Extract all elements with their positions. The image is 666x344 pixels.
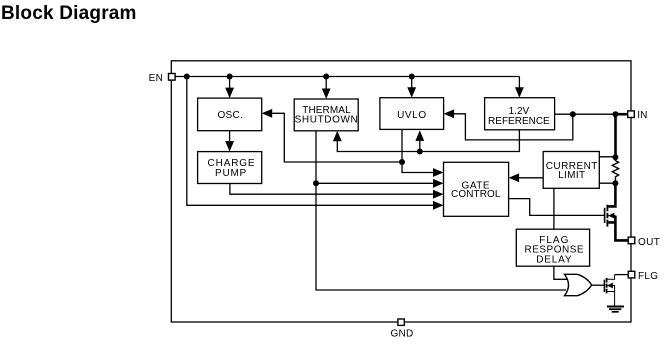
wire current limit to gate control	[510, 177, 543, 179]
svg-text:LIMIT: LIMIT	[558, 170, 585, 181]
svg-text:GND: GND	[390, 328, 413, 339]
svg-text:PUMP: PUMP	[215, 168, 247, 179]
node thermal shutdown junction	[313, 180, 319, 186]
wire charge pump to gate control	[230, 184, 442, 195]
wire resistor to pass transistor drain	[608, 183, 615, 206]
wire current limit sense top	[599, 156, 615, 158]
wire reference output rail to thermal shutdown	[337, 130, 519, 152]
svg-text:UVLO: UVLO	[397, 110, 427, 121]
wire EN rail to UVLO	[411, 77, 413, 97]
OR gate U1	[565, 274, 592, 295]
node resistor top	[612, 154, 618, 160]
block gate control	[444, 162, 509, 216]
wire EN rail	[175, 76, 519, 78]
wire EN rail to thermal shutdown	[325, 77, 327, 98]
wire UVLO output to OSC	[265, 113, 402, 162]
block thermal shutdown	[294, 99, 358, 131]
pin OUT	[628, 237, 660, 248]
transistor Q2 flag MOSFET	[604, 275, 614, 307]
wire flag transistor drain to FLG pin	[615, 274, 629, 276]
svg-text:REFERENCE: REFERENCE	[488, 116, 550, 127]
wire IN sense to UVLO	[446, 114, 573, 140]
node UVLO-OSC junction	[399, 159, 405, 165]
node reference rail junction	[417, 149, 423, 155]
svg-text:DELAY: DELAY	[536, 254, 572, 265]
pin EN	[149, 73, 176, 84]
svg-text:OUT: OUT	[638, 237, 660, 248]
node EN junction	[184, 74, 190, 80]
node UVLO branch	[409, 74, 415, 80]
svg-text:EN: EN	[149, 73, 164, 84]
wire UVLO to gate control	[402, 129, 442, 172]
wire reference to IN line	[554, 113, 616, 115]
svg-text:CONTROL: CONTROL	[451, 189, 501, 200]
ground	[607, 307, 624, 312]
transistor Q1 pass MOSFET	[605, 205, 616, 227]
pin FLG	[628, 271, 658, 282]
wire EN to gate control	[187, 77, 442, 206]
block flag response delay	[516, 229, 589, 266]
pin IN	[628, 110, 648, 121]
wire current limit to flag response delay	[553, 188, 555, 229]
wire thermal shutdown to OR gate and gate control	[316, 131, 566, 290]
wire EN rail to 1.2V reference	[518, 77, 520, 97]
wire reference rail arrow into UVLO bottom	[419, 132, 421, 152]
block UVLO	[380, 98, 444, 130]
wire OR gate output to flag transistor gate	[592, 284, 604, 286]
block OSC	[198, 98, 262, 131]
svg-text:FLG: FLG	[638, 271, 658, 282]
svg-text:OSC.: OSC.	[217, 110, 243, 121]
node IN line junction	[613, 111, 619, 117]
node IN-UVLO junction	[570, 111, 576, 117]
wire IN down to sense resistor	[614, 114, 617, 157]
resistor R1 sense	[612, 157, 618, 183]
wire IN pin thick	[616, 113, 629, 116]
block charge pump	[198, 152, 262, 184]
node OSC branch	[227, 74, 233, 80]
block current limit	[543, 152, 599, 189]
pin GND	[390, 319, 413, 339]
IC boundary box	[171, 61, 631, 322]
wire pass transistor source to OUT	[608, 216, 628, 241]
node resistor bottom	[612, 180, 618, 186]
node thermal branch	[323, 74, 329, 80]
svg-text:SHUTDOWN: SHUTDOWN	[295, 114, 359, 125]
svg-text:IN: IN	[637, 110, 647, 121]
svg-text:Block Diagram: Block Diagram	[1, 3, 137, 24]
wire flag response delay to OR gate	[554, 266, 567, 279]
wire gate control to pass transistor gate	[509, 199, 605, 216]
wire current limit sense bottom	[599, 182, 615, 184]
block 1.2V reference	[485, 98, 555, 130]
wire OSC to charge pump	[229, 131, 231, 150]
wire EN rail to OSC	[229, 77, 231, 97]
